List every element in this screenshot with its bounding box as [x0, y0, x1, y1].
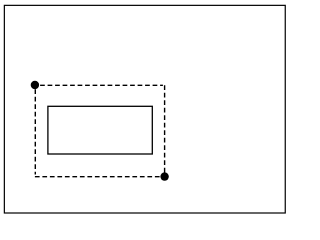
handle dot bottom-right — [160, 172, 168, 180]
wire bottom edge — [35, 176, 165, 178]
wire right edge — [164, 85, 166, 176]
outer frame — [4, 5, 285, 213]
wire left edge — [34, 85, 36, 174]
dashed selection rectangle — [35, 85, 165, 176]
inner rectangle — [48, 106, 152, 154]
wire top edge — [35, 84, 163, 86]
handle dot top-left — [31, 81, 39, 89]
